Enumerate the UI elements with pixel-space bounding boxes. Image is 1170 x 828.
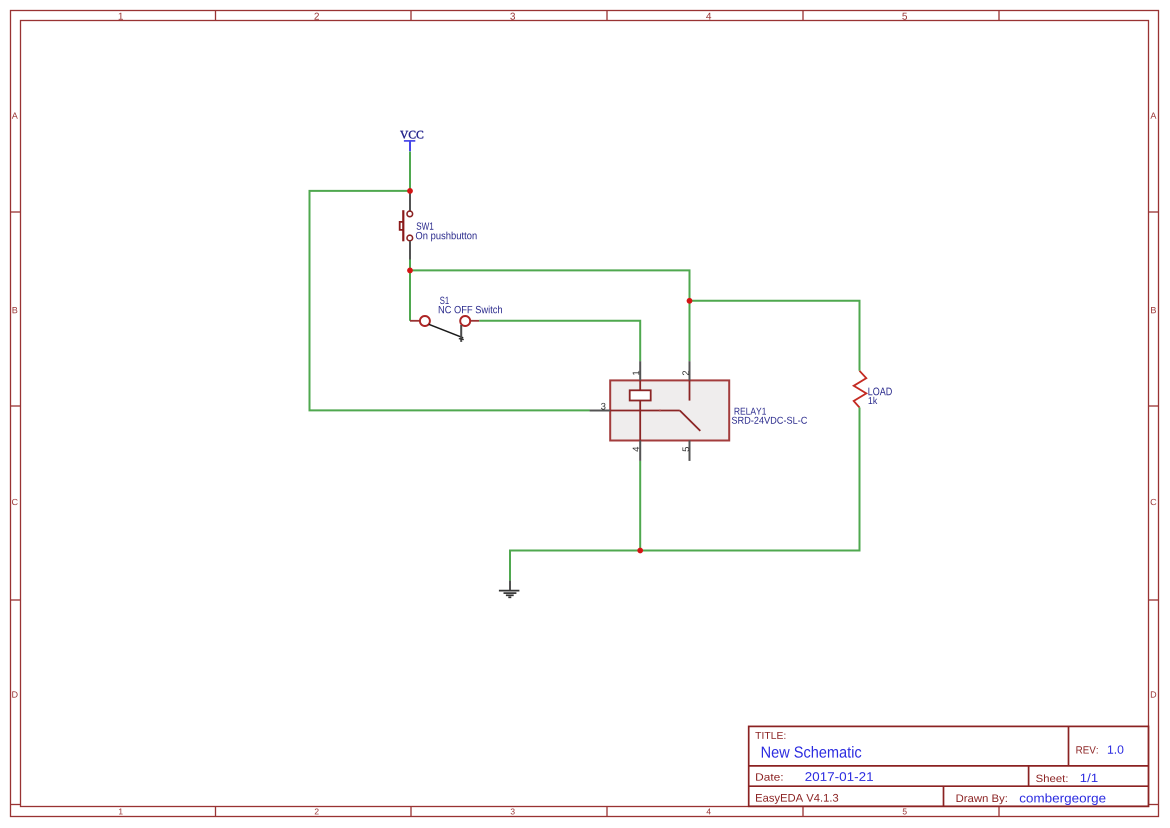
net label VCC <box>400 131 423 139</box>
relay pin number 1 <box>633 371 640 375</box>
relay NO contact line <box>689 380 691 400</box>
relay lever <box>680 411 701 431</box>
label SRD-24VDC-SL-C <box>732 417 807 424</box>
relay common line <box>610 410 680 412</box>
label NC OFF Switch <box>439 306 502 314</box>
label RELAY1 <box>735 408 766 415</box>
wire VCC stem <box>409 152 411 191</box>
wire left loop to relay pin 3 <box>310 191 590 411</box>
resistor LOAD <box>854 371 867 408</box>
relay pin number 3 <box>601 403 606 410</box>
pushbutton SW1 <box>400 191 413 271</box>
label On pushbutton <box>416 232 477 242</box>
junction J2 <box>407 268 413 274</box>
ground <box>499 581 520 598</box>
wire S1 to relay pin 1 <box>479 321 640 361</box>
wire LOAD bottom to ground rail <box>510 408 860 581</box>
relay pin number 4 <box>633 447 640 452</box>
relay pin 1 <box>639 361 641 380</box>
relay RELAY1 body <box>610 380 729 440</box>
wire J2 to relay pin 2 <box>410 270 690 361</box>
junction J1 <box>407 188 413 194</box>
switch S1 <box>410 316 479 342</box>
junction J3 <box>687 298 693 304</box>
label SW1 <box>417 222 434 229</box>
wire relay pin 4 down <box>639 461 641 551</box>
wire J3 to LOAD <box>690 301 860 371</box>
label 1k <box>869 397 878 404</box>
relay coil box <box>630 390 651 400</box>
label LOAD <box>868 388 891 396</box>
relay pin 3 <box>590 410 611 412</box>
relay coil line <box>639 380 641 440</box>
label S1 <box>440 297 449 304</box>
relay pin 2 <box>689 361 691 380</box>
power symbol VCC <box>404 141 415 151</box>
relay pin number 2 <box>682 371 689 375</box>
title block <box>749 726 1149 806</box>
relay pin 4 <box>639 441 641 461</box>
junction J4 <box>637 548 643 554</box>
relay pin 5 <box>689 441 691 461</box>
wire J2 down to S1 <box>409 270 411 320</box>
relay pin number 5 <box>682 447 689 452</box>
